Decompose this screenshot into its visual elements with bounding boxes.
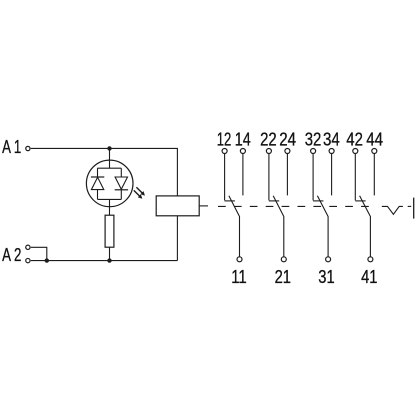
svg-text:32: 32 — [305, 129, 322, 150]
contact seat 42 — [355, 200, 365, 202]
svg-text:14: 14 — [235, 129, 251, 150]
mechanical link end dash — [408, 205, 412, 207]
wire NC 12 — [224, 154, 226, 201]
wire A1 to coil — [31, 148, 178, 196]
wire NO 44 — [373, 154, 375, 196]
node junction A1/LED — [107, 146, 111, 150]
terminal 12 — [222, 149, 227, 154]
diode D1 cathode bar — [91, 176, 104, 178]
terminal 14 — [240, 149, 245, 154]
wire NC 32 — [312, 154, 314, 201]
wire resistor to A2 rail — [109, 247, 111, 260]
mechanical link dashed line — [218, 205, 374, 207]
diode D2 cathode bar — [115, 189, 128, 191]
wire NC 42 — [354, 154, 356, 201]
terminal 22 — [266, 149, 271, 154]
terminal 24 — [285, 149, 290, 154]
node junction resistor/A2 — [107, 258, 111, 262]
node junction A2 bridge — [45, 258, 49, 262]
diode D1 triangle — [91, 177, 103, 189]
svg-text:A 2: A 2 — [2, 245, 21, 265]
svg-text:11: 11 — [231, 266, 247, 287]
contact blade pole 1 — [229, 196, 240, 257]
wire right branch upper — [120, 168, 122, 177]
resistor R1 — [105, 215, 114, 247]
mechanical end stop bar — [413, 198, 415, 219]
LED light arrow 2 — [134, 190, 143, 198]
terminal A2 lower — [26, 258, 30, 262]
LED light arrow 1 — [136, 187, 145, 195]
terminal 11 — [237, 257, 242, 262]
svg-text:41: 41 — [361, 266, 377, 287]
terminal 31 — [326, 257, 331, 262]
terminal 34 — [329, 149, 334, 154]
terminal 21 — [281, 257, 286, 262]
wire left branch lower — [97, 190, 99, 200]
svg-text:31: 31 — [318, 266, 334, 287]
terminal 42 — [353, 149, 358, 154]
mechanical link chevron — [382, 206, 403, 214]
contact seat 12 — [225, 200, 235, 202]
contact blade pole 4 — [360, 196, 371, 257]
wire bottom rail inside LED — [98, 198, 122, 200]
svg-text:22: 22 — [260, 129, 277, 150]
wire NO 24 — [286, 154, 288, 196]
contact blade pole 2 — [273, 196, 284, 257]
wire NO 34 — [331, 154, 333, 196]
LED indicator circle — [86, 160, 133, 207]
contact seat 22 — [269, 200, 279, 202]
svg-text:12: 12 — [217, 129, 232, 150]
terminal A1 — [26, 146, 30, 150]
wire NC 22 — [268, 154, 270, 201]
wire top rail inside LED — [98, 167, 122, 169]
wire right branch lower — [120, 190, 122, 200]
contact seat 32 — [313, 200, 323, 202]
wire A2 rail — [31, 260, 178, 262]
svg-text:44: 44 — [366, 129, 383, 150]
relay coil K1 — [156, 196, 199, 216]
contact blade pole 3 — [317, 196, 328, 257]
svg-text:21: 21 — [275, 266, 291, 287]
wire LED to resistor — [109, 199, 111, 215]
svg-text:42: 42 — [346, 129, 363, 150]
terminal 44 — [372, 149, 377, 154]
wire junction to LED circle — [109, 148, 111, 168]
wire NO 14 — [242, 154, 244, 196]
svg-text:34: 34 — [323, 129, 340, 150]
terminal A2 upper — [26, 245, 30, 249]
svg-text:A 1: A 1 — [2, 137, 21, 157]
wire coil actuator stub — [199, 205, 208, 207]
wire A2 upper bridge — [31, 247, 47, 260]
terminal 41 — [368, 257, 373, 262]
svg-text:24: 24 — [279, 129, 296, 150]
diode D2 triangle — [115, 177, 127, 189]
wire left branch upper — [97, 168, 99, 177]
wire coil to A2 rail — [176, 216, 178, 261]
terminal 32 — [311, 149, 316, 154]
